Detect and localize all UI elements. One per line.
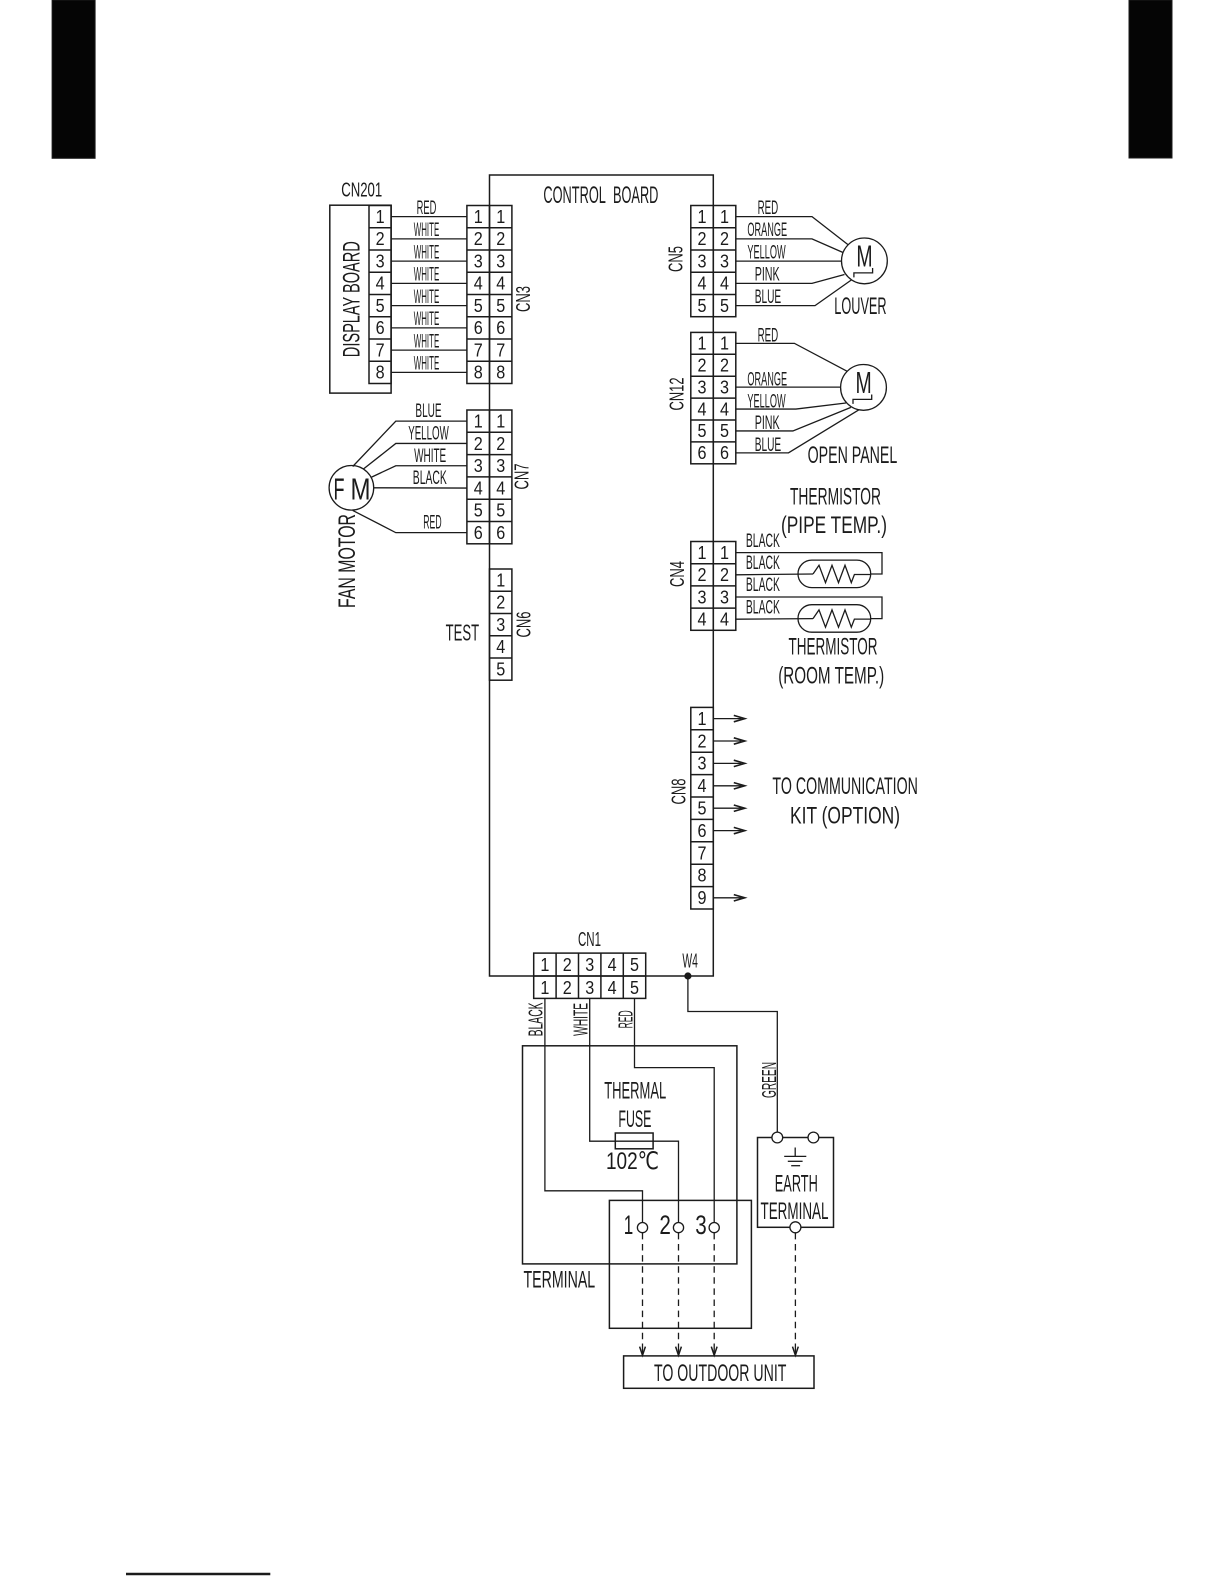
svg-text:1: 1 xyxy=(496,570,505,590)
svg-text:3: 3 xyxy=(496,615,505,635)
svg-text:WHITE: WHITE xyxy=(414,242,440,263)
svg-text:PINK: PINK xyxy=(755,413,780,434)
wire CN5 YELLOW to louver motor xyxy=(736,260,842,262)
svg-text:1: 1 xyxy=(698,207,707,227)
svg-text:5: 5 xyxy=(698,296,707,316)
svg-text:2: 2 xyxy=(563,955,572,975)
svg-text:BLUE: BLUE xyxy=(415,401,441,422)
svg-text:2: 2 xyxy=(698,356,707,376)
svg-text:ORANGE: ORANGE xyxy=(747,369,787,390)
svg-text:2: 2 xyxy=(496,593,505,613)
svg-text:CONTROL BOARD: CONTROL BOARD xyxy=(543,182,658,209)
svg-text:1: 1 xyxy=(698,543,707,563)
arrowhead at x=642.5 xyxy=(640,1344,646,1356)
svg-text:YELLOW: YELLOW xyxy=(408,423,449,444)
wire CN5 BLUE to louver motor xyxy=(736,280,852,306)
svg-text:3: 3 xyxy=(698,754,707,774)
svg-text:WHITE: WHITE xyxy=(414,220,440,241)
svg-text:RED: RED xyxy=(417,198,437,219)
svg-text:CN1: CN1 xyxy=(578,929,601,951)
svg-text:6: 6 xyxy=(496,523,505,543)
svg-text:1: 1 xyxy=(720,543,729,563)
open panel motor M symbol xyxy=(841,365,887,411)
svg-text:M: M xyxy=(856,239,872,274)
svg-text:4: 4 xyxy=(720,610,729,630)
svg-text:1: 1 xyxy=(698,334,707,354)
wire fan motor RED to CN7 xyxy=(353,510,467,532)
wire CN12 RED to open panel motor xyxy=(736,343,847,371)
louver motor M symbol xyxy=(842,238,888,284)
svg-text:4: 4 xyxy=(698,399,707,419)
svg-text:3: 3 xyxy=(698,251,707,271)
svg-text:5: 5 xyxy=(474,296,483,316)
svg-text:1: 1 xyxy=(720,334,729,354)
svg-text:3: 3 xyxy=(698,587,707,607)
svg-text:1: 1 xyxy=(474,411,483,431)
arrowhead at x=714.2 xyxy=(711,1344,717,1356)
TO OUTDOOR UNIT box xyxy=(624,1356,814,1388)
dashed wire terminal to outdoor unit xyxy=(642,1233,644,1343)
svg-text:(PIPE TEMP.): (PIPE TEMP.) xyxy=(781,512,887,539)
svg-text:RED: RED xyxy=(423,513,441,534)
svg-text:WHITE: WHITE xyxy=(414,446,446,467)
svg-text:PINK: PINK xyxy=(755,265,780,286)
svg-text:5: 5 xyxy=(496,296,505,316)
svg-text:1: 1 xyxy=(540,955,549,975)
bottom blue underline mark xyxy=(126,1573,270,1576)
display board outline xyxy=(330,205,391,393)
svg-text:4: 4 xyxy=(474,478,483,498)
svg-text:KIT (OPTION): KIT (OPTION) xyxy=(790,803,900,830)
svg-text:5: 5 xyxy=(630,978,639,998)
svg-text:6: 6 xyxy=(474,318,483,338)
svg-text:3: 3 xyxy=(585,978,594,998)
svg-text:TERMINAL: TERMINAL xyxy=(761,1198,829,1225)
svg-text:THERMAL: THERMAL xyxy=(604,1078,666,1105)
connector CN6 xyxy=(490,569,512,680)
svg-text:4: 4 xyxy=(698,776,707,796)
svg-text:F: F xyxy=(334,472,345,507)
svg-text:LOUVER: LOUVER xyxy=(834,293,886,320)
wire fan motor BLACK to CN7 xyxy=(374,487,467,489)
svg-text:3: 3 xyxy=(496,456,505,476)
svg-text:BLACK: BLACK xyxy=(746,553,780,574)
svg-text:7: 7 xyxy=(474,340,483,360)
svg-text:5: 5 xyxy=(496,501,505,521)
svg-text:2: 2 xyxy=(659,1210,671,1240)
ground symbol xyxy=(784,1148,806,1166)
svg-text:THERMISTOR: THERMISTOR xyxy=(789,634,878,661)
svg-text:5: 5 xyxy=(720,421,729,441)
svg-text:TERMINAL: TERMINAL xyxy=(524,1267,596,1294)
svg-text:YELLOW: YELLOW xyxy=(747,391,785,412)
svg-text:CN5: CN5 xyxy=(666,246,688,272)
terminal block box xyxy=(609,1200,751,1328)
svg-text:1: 1 xyxy=(624,1210,634,1240)
svg-text:2: 2 xyxy=(376,229,385,249)
svg-text:1: 1 xyxy=(474,207,483,227)
svg-text:WHITE: WHITE xyxy=(414,354,440,375)
svg-text:5: 5 xyxy=(376,296,385,316)
wire display board pin 3 to CN3 pin 3 xyxy=(391,260,467,262)
enclosure box xyxy=(523,1046,737,1264)
svg-text:2: 2 xyxy=(698,229,707,249)
connector CN3 xyxy=(467,206,512,384)
svg-text:8: 8 xyxy=(698,866,707,886)
svg-text:3: 3 xyxy=(720,587,729,607)
svg-text:BLACK: BLACK xyxy=(413,468,447,489)
svg-text:BLACK: BLACK xyxy=(746,575,780,596)
wire display board pin 5 to CN3 pin 5 xyxy=(391,305,467,307)
dashed wire terminal to outdoor unit xyxy=(713,1233,715,1343)
svg-text:4: 4 xyxy=(376,274,385,294)
svg-text:M: M xyxy=(351,472,371,507)
svg-text:1: 1 xyxy=(720,207,729,227)
svg-text:2: 2 xyxy=(496,229,505,249)
svg-text:CN8: CN8 xyxy=(669,779,691,805)
svg-text:WHITE: WHITE xyxy=(571,1003,593,1036)
svg-text:7: 7 xyxy=(496,340,505,360)
svg-text:4: 4 xyxy=(496,478,505,498)
svg-text:CN3: CN3 xyxy=(513,286,535,312)
svg-text:BLACK: BLACK xyxy=(526,1002,548,1036)
svg-text:OPEN PANEL: OPEN PANEL xyxy=(808,442,898,469)
arrow CN8 pin 1 xyxy=(713,715,745,721)
fan motor FM symbol xyxy=(329,466,374,511)
arrow CN8 pin 2 xyxy=(713,738,745,744)
wire display board pin 2 to CN3 pin 2 xyxy=(391,238,467,240)
svg-text:2: 2 xyxy=(720,229,729,249)
svg-text:3: 3 xyxy=(720,377,729,397)
thermistor (room temp.) xyxy=(736,597,882,632)
svg-text:3: 3 xyxy=(695,1210,707,1240)
arrow CN8 pin 6 xyxy=(713,827,745,833)
connector CN4 xyxy=(691,542,736,631)
arrow CN8 pin 3 xyxy=(713,760,745,766)
connector CN201 pin column (display board pins 1-8) xyxy=(369,206,391,384)
terminal 1 xyxy=(624,1210,648,1240)
svg-text:3: 3 xyxy=(720,251,729,271)
svg-text:RED: RED xyxy=(758,198,779,219)
svg-text:7: 7 xyxy=(698,843,707,863)
svg-text:TO COMMUNICATION: TO COMMUNICATION xyxy=(772,773,918,800)
connector CN8 xyxy=(691,707,714,909)
wire display board pin 8 to CN3 pin 8 xyxy=(391,371,467,373)
thermistor (pipe temp.) xyxy=(736,553,882,588)
earth terminal xyxy=(758,1132,834,1233)
wire RED CN1 pin5 to terminal 3 xyxy=(635,998,715,1222)
svg-text:W4: W4 xyxy=(682,951,698,973)
svg-text:TEST: TEST xyxy=(446,620,480,646)
svg-text:2: 2 xyxy=(698,565,707,585)
wire GREEN W4 to earth terminal xyxy=(688,976,777,1132)
svg-text:4: 4 xyxy=(496,274,505,294)
svg-text:1: 1 xyxy=(698,709,707,729)
svg-text:FAN MOTOR: FAN MOTOR xyxy=(334,514,361,608)
svg-text:4: 4 xyxy=(496,637,505,657)
svg-text:WHITE: WHITE xyxy=(414,265,440,286)
scan mark top-left xyxy=(52,0,95,158)
svg-text:5: 5 xyxy=(630,955,639,975)
svg-text:2: 2 xyxy=(496,434,505,454)
arrowhead at x=795.4 xyxy=(793,1344,799,1356)
svg-text:8: 8 xyxy=(496,363,505,383)
svg-text:RED: RED xyxy=(616,1010,638,1028)
wire WHITE CN1 pin3 through thermal fuse to terminal 2 xyxy=(590,998,679,1222)
svg-text:BLUE: BLUE xyxy=(755,435,782,456)
arrow CN8 pin 9 xyxy=(713,895,745,901)
wire CN12 ORANGE to open panel motor xyxy=(736,386,841,388)
wire display board pin 1 to CN3 pin 1 xyxy=(391,216,467,218)
wire fan motor WHITE to CN7 xyxy=(372,466,467,477)
wire display board pin 7 to CN3 pin 7 xyxy=(391,349,467,351)
dashed wire earth to outdoor unit xyxy=(794,1233,796,1343)
svg-text:EARTH: EARTH xyxy=(775,1170,818,1197)
wire CN12 YELLOW to open panel motor xyxy=(736,403,846,409)
svg-text:4: 4 xyxy=(608,955,617,975)
svg-text:6: 6 xyxy=(376,318,385,338)
svg-text:7: 7 xyxy=(376,340,385,360)
svg-text:WHITE: WHITE xyxy=(414,331,440,352)
svg-text:5: 5 xyxy=(496,659,505,679)
svg-text:BLACK: BLACK xyxy=(746,597,780,618)
wire CN5 ORANGE to louver motor xyxy=(736,239,843,253)
wire fan motor BLUE to CN7 xyxy=(353,421,467,466)
arrowhead at x=678.5 xyxy=(676,1344,682,1356)
svg-text:5: 5 xyxy=(720,296,729,316)
control board outline xyxy=(490,175,714,976)
svg-text:THERMISTOR: THERMISTOR xyxy=(790,484,881,511)
svg-text:RED: RED xyxy=(758,326,779,347)
svg-text:3: 3 xyxy=(698,377,707,397)
wire CN12 BLUE to open panel motor xyxy=(736,410,859,453)
wire fan motor YELLOW to CN7 xyxy=(363,443,467,469)
svg-text:CN4: CN4 xyxy=(667,561,689,587)
svg-text:BLACK: BLACK xyxy=(746,531,780,552)
wire BLACK CN1 pin1 to terminal 1 xyxy=(545,998,643,1222)
svg-text:WHITE: WHITE xyxy=(414,309,440,330)
svg-text:6: 6 xyxy=(698,821,707,841)
wire display board pin 6 to CN3 pin 6 xyxy=(391,327,467,329)
svg-text:8: 8 xyxy=(474,363,483,383)
svg-text:9: 9 xyxy=(698,888,707,908)
svg-text:2: 2 xyxy=(720,356,729,376)
svg-text:CN7: CN7 xyxy=(512,464,534,490)
arrow CN8 pin 5 xyxy=(713,805,745,811)
svg-text:FUSE: FUSE xyxy=(618,1106,651,1133)
svg-text:6: 6 xyxy=(720,443,729,463)
svg-text:102℃: 102℃ xyxy=(606,1148,659,1175)
terminal 3 xyxy=(695,1210,719,1240)
svg-text:3: 3 xyxy=(376,251,385,271)
svg-text:2: 2 xyxy=(698,731,707,751)
connector CN5 xyxy=(691,206,736,317)
svg-text:1: 1 xyxy=(376,207,385,227)
svg-text:4: 4 xyxy=(720,399,729,419)
svg-text:M: M xyxy=(856,365,872,400)
svg-text:4: 4 xyxy=(698,274,707,294)
wire CN5 RED to louver motor xyxy=(736,217,848,245)
svg-text:5: 5 xyxy=(698,799,707,819)
svg-text:(ROOM TEMP.): (ROOM TEMP.) xyxy=(778,663,884,690)
svg-text:6: 6 xyxy=(496,318,505,338)
svg-text:WHITE: WHITE xyxy=(414,287,440,308)
svg-text:5: 5 xyxy=(698,421,707,441)
svg-text:2: 2 xyxy=(474,229,483,249)
svg-text:2: 2 xyxy=(563,978,572,998)
svg-text:BLUE: BLUE xyxy=(755,287,782,308)
svg-text:6: 6 xyxy=(698,443,707,463)
wire CN5 PINK to louver motor xyxy=(736,275,845,284)
svg-text:1: 1 xyxy=(496,411,505,431)
connector CN12 xyxy=(691,332,736,463)
svg-text:CN6: CN6 xyxy=(514,612,536,638)
svg-text:3: 3 xyxy=(474,456,483,476)
wire CN12 PINK to open panel motor xyxy=(736,407,851,431)
node W4 (junction dot) xyxy=(685,973,691,979)
svg-text:CN201: CN201 xyxy=(341,180,382,202)
svg-text:3: 3 xyxy=(496,251,505,271)
dashed wire terminal to outdoor unit xyxy=(678,1233,680,1343)
svg-text:GREEN: GREEN xyxy=(759,1062,781,1098)
connector CN1 xyxy=(534,953,646,998)
svg-text:3: 3 xyxy=(585,955,594,975)
svg-text:4: 4 xyxy=(474,274,483,294)
svg-text:1: 1 xyxy=(540,978,549,998)
svg-text:6: 6 xyxy=(474,523,483,543)
wire display board pin 4 to CN3 pin 4 xyxy=(391,282,467,284)
svg-text:2: 2 xyxy=(474,434,483,454)
svg-text:DISPLAY BOARD: DISPLAY BOARD xyxy=(339,241,366,357)
svg-text:TO OUTDOOR UNIT: TO OUTDOOR UNIT xyxy=(654,1360,787,1387)
svg-text:CN12: CN12 xyxy=(667,378,689,411)
thermal fuse (102 C) xyxy=(615,1133,653,1149)
connector CN7 xyxy=(467,410,512,544)
svg-text:ORANGE: ORANGE xyxy=(747,220,787,241)
svg-text:3: 3 xyxy=(474,251,483,271)
svg-text:4: 4 xyxy=(698,610,707,630)
svg-text:4: 4 xyxy=(720,274,729,294)
svg-text:1: 1 xyxy=(496,207,505,227)
svg-text:5: 5 xyxy=(474,501,483,521)
arrow CN8 pin 4 xyxy=(713,783,745,789)
scan mark top-right xyxy=(1129,0,1172,158)
svg-text:2: 2 xyxy=(720,565,729,585)
svg-text:YELLOW: YELLOW xyxy=(747,242,785,263)
svg-text:4: 4 xyxy=(608,978,617,998)
terminal 2 xyxy=(659,1210,683,1240)
svg-text:8: 8 xyxy=(376,363,385,383)
